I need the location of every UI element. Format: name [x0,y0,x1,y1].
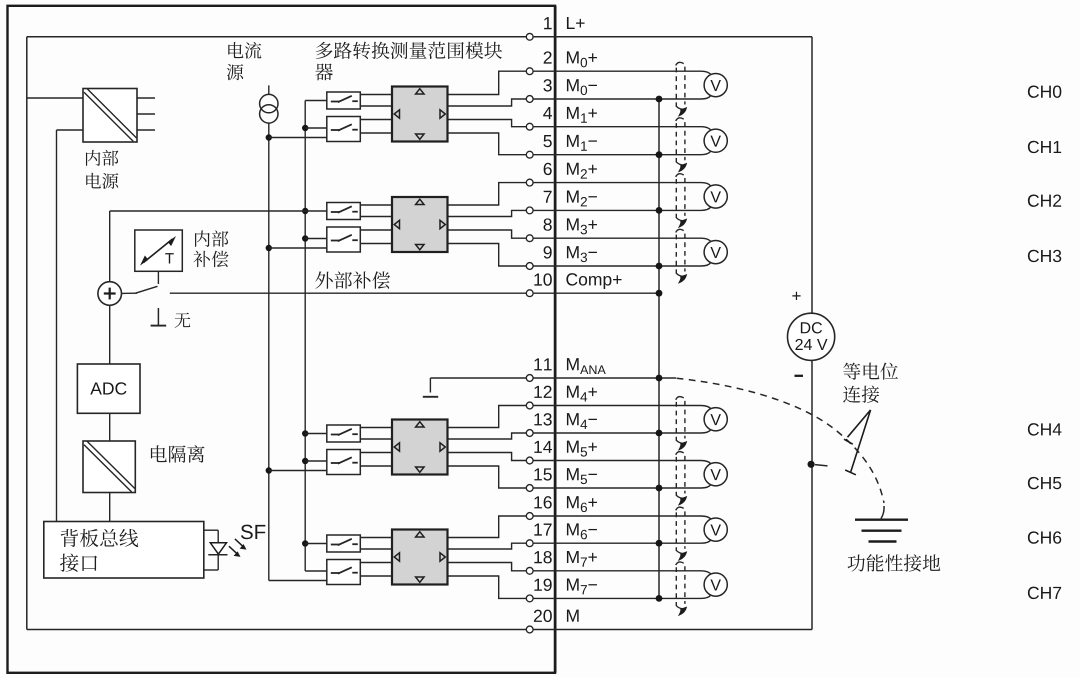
junction bus M7- [656,595,663,602]
label - [795,375,804,377]
net label M6− [567,523,597,539]
junction bus MANA [656,375,663,382]
label 电隔离 [151,445,205,463]
terminal 12 circle [526,402,533,409]
current source symbol [260,85,278,137]
net label M1− [567,135,597,151]
net label M3− [567,246,597,262]
terminal 10 pin number [534,273,551,285]
junction rail ch6 [302,540,327,546]
terminal 13 pin number [534,413,551,425]
terminal 13 circle [526,430,533,437]
terminal 3 circle [526,96,533,103]
terminal strip separator line [554,6,557,673]
channel label CH6 [1028,531,1061,543]
internal compensation box T [135,230,183,271]
terminal 10 circle [526,290,533,297]
net label M0+ [567,51,597,67]
net label M7− [567,579,597,595]
multiplexer MUX3 [392,420,448,475]
current source distribution rail [269,138,327,581]
wire inner module left edge (L+ rail) [26,37,28,630]
wire isolation to backplane [109,493,111,522]
terminal 15 circle [526,485,533,492]
junction bus M0- [656,96,663,103]
terminal 2 pin number [544,51,552,63]
junction bus M2- [656,207,663,214]
junction rail ch2/3 [302,235,327,241]
channel label CH0 [1028,85,1061,97]
equipotential pointer arrow [844,410,871,475]
net label M7+ [567,551,597,567]
SF LED diode [204,530,228,570]
channel label CH1 [1028,141,1061,153]
terminal 1 pin number [544,17,552,29]
wires switches to mux group 3 [360,428,392,467]
cable shield CH3 [676,229,687,282]
cable shield CH6 [676,507,687,560]
wire minus row to voltmeter [533,429,711,433]
terminal 7 pin number [544,191,552,203]
label 多路转换测量范围模块器 [315,42,502,81]
net label M2− [567,191,597,207]
wire ADC to isolation [109,413,111,441]
terminal 15 pin number [534,468,551,480]
label 功能性接地 [848,554,941,571]
switch S4 [327,227,361,252]
switch S8 [327,560,361,585]
channel label CH5 [1028,477,1061,489]
label 等电位连接 [843,363,898,403]
terminal 19 circle [526,595,533,602]
net label M5+ [567,441,597,457]
wire M row (terminal 20) bottom edge [27,629,812,631]
wire M5+ row to voltmeter [533,461,711,465]
multiplexer MUX2 [392,197,448,252]
net label M4− [567,413,597,429]
wires switches to mux group 2 [360,205,392,244]
junction rail ch0 [302,125,327,131]
label 背板总线接口 [60,529,138,572]
terminal 5 circle [526,151,533,158]
voltmeter V CH5 [704,463,727,486]
junction rail adder line [302,208,308,214]
label 内部电源 [86,150,119,189]
terminal 14 pin number [534,441,552,453]
net label Comp+ [566,273,621,289]
switch S5 [327,425,361,442]
ADC box [77,364,140,413]
wire mux outputs routing group t16-t19 [448,516,527,598]
junction rail ch4 [302,430,327,436]
junction current rail ch0/1 [266,134,327,140]
switch S6 [327,450,361,475]
wire power supply to backplane [57,130,84,522]
terminal 20 circle [526,626,533,633]
net label M5− [567,468,597,484]
voltmeter V CH0 [704,74,727,97]
equipotential stub from DC minus junction [815,465,828,466]
junction bus M1- [656,151,663,158]
analog ground bus [658,99,660,598]
multiplexer MUX4 [392,530,448,585]
terminal 8 pin number [544,218,552,230]
net label L+ [567,17,585,29]
terminal 11 pin number [534,358,551,370]
compensation selector switch [122,272,159,294]
junction equipotential [808,461,815,468]
label 内部补偿 [193,230,228,267]
net label M3+ [567,218,597,234]
terminal 4 pin number [543,107,552,119]
wire power supply input from L+ rail [27,97,83,99]
terminal 5 pin number [543,135,551,147]
terminal 9 circle [526,263,533,270]
cable shield CH0 [676,62,687,115]
net label MANA [567,358,606,374]
switch S2 [327,117,361,142]
net label M1+ [567,107,597,123]
switch S1 [327,92,361,109]
functional earth stub [881,506,884,519]
wire M3+ row to voltmeter [533,238,711,242]
multiplexer MUX1 [392,87,448,142]
galvanic isolation box [83,441,135,493]
terminal 8 circle [526,235,533,242]
terminal 7 circle [526,207,533,214]
label 外部补偿 [315,271,390,288]
DC 24V source [788,313,835,360]
wire M2+ row to voltmeter [533,183,711,187]
label SF [241,525,265,540]
label + [792,292,800,300]
junction bus M4- [656,430,663,437]
backplane bus interface box [44,522,204,579]
wire minus row to voltmeter [533,484,711,488]
net label M6+ [567,496,597,512]
wires switches to mux group 4 [360,538,392,577]
cable shield CH5 [676,452,687,505]
cable shield CH7 [676,562,687,615]
wire L+ down to DC source [811,37,813,314]
terminal 14 circle [526,457,533,464]
terminal 2 circle [526,68,533,75]
junction current rail ch4/5 [266,467,327,473]
wire minus row to voltmeter [533,95,711,99]
MANA reference terminator [423,378,438,397]
wire M1+ row to voltmeter [533,127,711,131]
channel label CH3 [1028,250,1061,262]
voltmeter V CH7 [704,573,727,596]
LED emission arrows [229,539,247,557]
terminal 11 circle [526,375,533,382]
terminal 17 pin number [534,524,551,536]
wire adder to ADC [109,305,111,364]
power supply output stubs [137,98,155,130]
voltmeter V CH3 [704,241,727,264]
adder circle [98,282,122,306]
switch S7 [327,535,361,552]
terminal 18 pin number [534,551,551,563]
terminal 6 circle [526,179,533,186]
wire adder to rail [110,211,327,282]
voltmeter V CH1 [704,129,727,152]
wire minus row to voltmeter [533,151,711,155]
terminal 18 circle [526,567,533,574]
wire minus row to voltmeter [533,207,711,211]
measurement distribution rail [305,101,327,572]
wire Comp+ row (terminal 10) to bus [170,292,659,294]
net label M [567,610,579,622]
wire M6+ row to voltmeter [533,516,711,519]
wire M7+ row to voltmeter [533,571,711,575]
functional earth ground symbol [855,520,908,542]
no-compensation terminator 无 [151,308,167,326]
label 电流源 [227,42,262,80]
wire minus row to voltmeter [533,262,711,266]
cable shield CH4 [676,397,687,450]
voltmeter V CH6 [704,518,727,541]
terminal 4 circle [526,123,533,130]
wire mux outputs routing group t2-t5 [448,71,527,155]
outer module enclosure [8,6,556,673]
channel label CH2 [1028,194,1061,206]
terminal 1 circle [526,33,533,40]
wire mux outputs routing group t6-t9 [448,183,527,266]
cable shield CH2 [676,174,687,227]
terminal 12 pin number [534,386,551,398]
internal power supply converter [83,89,137,143]
terminal 6 pin number [544,163,552,175]
net label M4+ [567,386,597,402]
terminal 19 pin number [534,579,551,591]
voltmeter V CH4 [704,408,727,431]
junction bus M6- [656,540,663,547]
wire minus row to voltmeter [533,595,711,599]
net label M2+ [567,163,597,179]
channel label CH4 [1028,423,1062,435]
junction bus Comp+ [656,290,663,297]
wires switches to mux group 1 [360,95,392,134]
voltmeter V CH2 [704,185,727,208]
junction current rail ch2/3 [266,245,327,251]
wire DC source to M row [811,360,813,629]
terminal 20 pin number [534,610,552,622]
equipotential bonding conductor MANA to earth [677,378,885,503]
junction rail ch4/5 b [302,458,327,464]
cable shield CH1 [676,118,687,171]
wire minus row to voltmeter [533,540,711,543]
net label M0− [567,79,597,95]
switch S3 [327,203,361,220]
wire L+ row (terminal 1) [27,36,812,38]
channel label CH7 [1028,587,1061,599]
terminal 17 circle [526,540,533,547]
terminal 16 circle [526,513,533,520]
wire M0+ row to voltmeter [533,71,711,75]
terminal 16 pin number [534,496,551,508]
terminal 9 pin number [544,246,552,258]
junction bus M5- [656,485,663,492]
wire M4+ row to voltmeter [533,406,711,410]
terminal 3 pin number [543,79,551,91]
junction bus M3- [656,263,663,270]
wire MANA row (terminal 11) [430,377,676,379]
wire mux outputs routing group t12-t15 [448,406,527,489]
